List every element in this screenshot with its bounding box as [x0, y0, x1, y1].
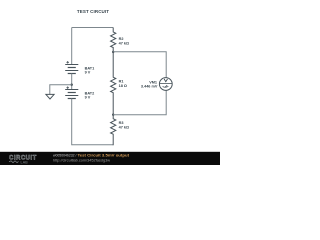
label R2 47 kOhm	[119, 37, 129, 46]
resistor R1	[111, 52, 116, 115]
footer line 2	[53, 158, 111, 162]
ground	[46, 94, 54, 99]
svg-text:LAB: LAB	[21, 160, 29, 164]
resistor R3	[111, 115, 116, 146]
wire to ground	[50, 85, 72, 95]
svg-text:TEST CIRCUIT: TEST CIRCUIT	[77, 9, 109, 14]
label VM1 3.446 mV	[141, 80, 158, 88]
wire bottom	[72, 144, 114, 146]
label R3 47 kOhm	[119, 121, 129, 129]
title TEST CIRCUIT	[77, 9, 109, 14]
svg-text:http://circuitlab.com/3452fasd: http://circuitlab.com/3452fasdg3w	[53, 158, 111, 162]
svg-text:w005004b232 /Test Circuit 3.5m: w005004b232 /Test Circuit 3.5mV output	[53, 154, 130, 158]
wire BAT1 to BAT2	[71, 74, 73, 90]
voltmeter VM1	[159, 78, 172, 91]
junction battery midpoint	[71, 84, 73, 86]
junction node C	[112, 114, 114, 116]
footer bar	[0, 152, 220, 165]
svg-text:9 V: 9 V	[85, 71, 91, 75]
svg-text:R2: R2	[119, 37, 124, 41]
label R1 18 Ohm	[119, 80, 127, 88]
battery BAT2	[65, 86, 78, 98]
resistor R2	[111, 28, 116, 53]
footer line 1	[53, 154, 130, 158]
footer logo CIRCUIT LAB	[9, 155, 37, 164]
svg-text:47 kΩ: 47 kΩ	[119, 42, 129, 46]
svg-text:BAT1: BAT1	[85, 66, 95, 70]
wire top (node A)	[72, 27, 114, 29]
wire voltmeter to node C	[113, 90, 166, 114]
wire left top	[71, 28, 73, 65]
label BAT1 9 V	[85, 66, 95, 74]
svg-text:18 Ω: 18 Ω	[119, 84, 127, 88]
junction node B	[112, 51, 114, 53]
svg-text:R3: R3	[119, 121, 124, 125]
wire node B to voltmeter	[113, 52, 166, 78]
battery BAT1	[65, 61, 78, 74]
svg-text:3.446 mV: 3.446 mV	[141, 85, 158, 89]
svg-text:R1: R1	[119, 80, 124, 84]
svg-text:BAT2: BAT2	[85, 91, 95, 95]
wire left bottom	[71, 99, 73, 146]
svg-text:9 V: 9 V	[85, 96, 91, 100]
svg-text:47 kΩ: 47 kΩ	[119, 125, 129, 129]
label BAT2 9 V	[85, 91, 95, 99]
